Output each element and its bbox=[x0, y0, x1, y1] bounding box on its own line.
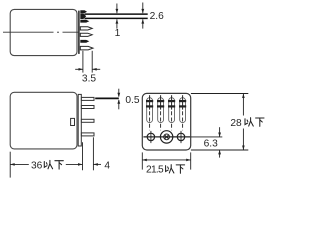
svg-text:6.3: 6.3 bbox=[204, 138, 218, 149]
svg-text:1: 1 bbox=[115, 28, 121, 39]
svg-text:2.6: 2.6 bbox=[150, 11, 164, 22]
svg-text:4: 4 bbox=[104, 160, 110, 171]
svg-text:21.5: 21.5 bbox=[146, 165, 164, 176]
svg-text:28: 28 bbox=[230, 118, 242, 129]
svg-text:0.5: 0.5 bbox=[125, 95, 139, 106]
svg-text:3.5: 3.5 bbox=[82, 73, 96, 84]
svg-text:36: 36 bbox=[31, 160, 43, 171]
